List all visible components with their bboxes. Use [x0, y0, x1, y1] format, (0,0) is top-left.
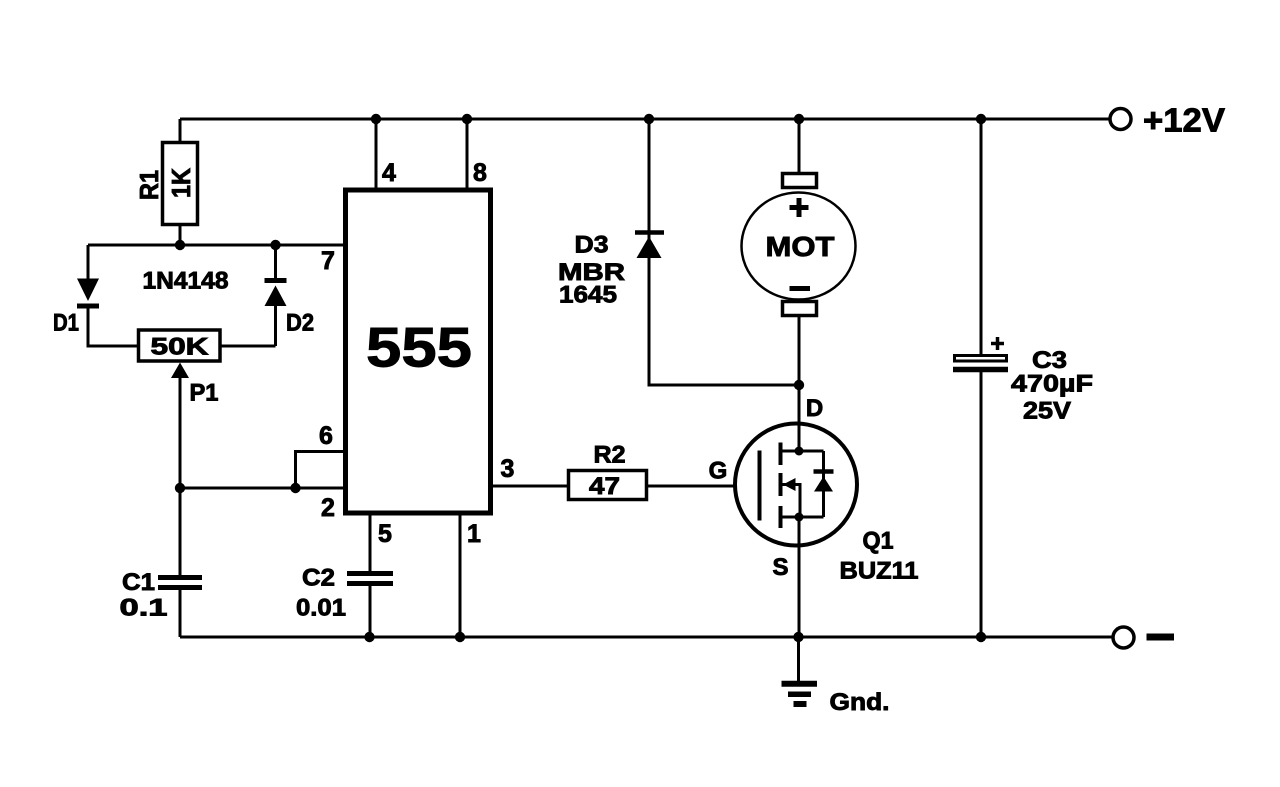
wire wiper to pin 2	[180, 487, 343, 490]
node junction C2/rail	[364, 632, 374, 642]
diode D1	[77, 279, 99, 302]
node junction drain	[794, 380, 804, 390]
svg-text:P1: P1	[190, 380, 219, 407]
svg-text:1: 1	[467, 520, 481, 548]
channel dashes	[779, 443, 783, 529]
svg-text:C2: C2	[302, 565, 335, 592]
svg-text:MOT: MOT	[766, 231, 835, 262]
drain stub	[781, 450, 824, 453]
svg-text:R2: R2	[594, 442, 626, 469]
svg-text:G: G	[709, 458, 728, 485]
svg-text:1645: 1645	[559, 282, 617, 309]
source stub	[781, 516, 824, 519]
svg-text:1N4148: 1N4148	[143, 268, 229, 295]
node junction pin1/rail	[455, 632, 465, 642]
svg-text:0.01: 0.01	[296, 595, 346, 622]
svg-text:Gnd.: Gnd.	[830, 689, 890, 716]
motor plus	[790, 198, 809, 217]
svg-text:S: S	[772, 554, 788, 581]
svg-text:+12V: +12V	[1143, 101, 1225, 138]
svg-text:BUZ11: BUZ11	[840, 558, 919, 585]
potentiometer P1 50K	[139, 330, 221, 361]
motor brush bottom	[783, 302, 817, 316]
node terminal +12V	[1110, 109, 1131, 130]
middle stub with arrow	[781, 485, 801, 518]
resistor R1	[163, 143, 198, 225]
node junction source/rail	[793, 632, 803, 642]
wire motor top	[798, 119, 801, 173]
svg-text:1K: 1K	[166, 168, 196, 198]
svg-text:3: 3	[501, 455, 515, 483]
wire pin 1	[459, 513, 462, 637]
svg-text:R1: R1	[134, 170, 164, 200]
wire mid rail to pin 7	[88, 244, 343, 247]
diode D3	[649, 119, 799, 385]
wire drain	[798, 385, 801, 451]
svg-text:8: 8	[473, 159, 487, 187]
wire pot to D2	[220, 345, 276, 348]
wire D1 top	[87, 245, 90, 279]
node junction pin6 stub	[290, 483, 300, 493]
wire top rail +12V	[180, 118, 1109, 121]
svg-text:47: 47	[589, 473, 620, 500]
wire R1 top riser	[179, 119, 182, 143]
C3 plus sign	[991, 337, 1004, 350]
wire R2 to gate	[648, 485, 760, 488]
node junction C3/rail	[976, 632, 986, 642]
capacitor C2	[347, 574, 393, 584]
motor MOT body	[742, 193, 856, 300]
wire pin 4	[375, 119, 378, 190]
wiper arrow P1	[171, 363, 189, 379]
node junction R1/mid	[175, 240, 185, 250]
wire R1 bottom	[179, 224, 182, 245]
svg-text:50K: 50K	[151, 334, 210, 361]
wire pin 3 to R2	[491, 485, 567, 488]
node junction wiper/C1	[175, 483, 185, 493]
node junction D3 top	[644, 114, 654, 124]
svg-text:0.1: 0.1	[120, 595, 168, 622]
svg-text:D1: D1	[53, 310, 79, 337]
svg-text:D2: D2	[286, 310, 314, 337]
node junction pin4	[371, 114, 381, 124]
svg-text:D: D	[806, 395, 823, 422]
ground	[797, 637, 800, 681]
wire bottom rail	[180, 636, 1112, 639]
motor minus	[790, 286, 811, 291]
transistor Q1 MOSFET circle	[735, 424, 857, 546]
resistor R2	[569, 471, 647, 500]
capacitor C3	[980, 119, 983, 354]
node junction C3 top	[976, 114, 986, 124]
svg-text:470µF: 470µF	[1011, 371, 1093, 398]
wire pin 5 / C2	[369, 513, 372, 571]
wire source down to rail	[798, 517, 801, 637]
svg-text:D3: D3	[575, 232, 609, 259]
op-amp U1 555 timer box	[346, 190, 491, 513]
diode D2	[274, 306, 277, 346]
svg-text:6: 6	[319, 422, 333, 450]
svg-text:5: 5	[378, 520, 392, 548]
svg-text:2: 2	[321, 494, 335, 522]
gate bar	[758, 451, 762, 521]
svg-text:25V: 25V	[1023, 398, 1071, 425]
capacitor C1	[179, 488, 182, 575]
svg-text:C1: C1	[122, 569, 155, 596]
node junction pin8	[462, 114, 472, 124]
wire D1 bottom to pot	[88, 304, 139, 346]
wire motor bottom	[798, 317, 801, 385]
svg-text:7: 7	[321, 247, 335, 275]
wire pin 8	[466, 119, 469, 190]
body diode of Q1	[822, 451, 825, 517]
motor brush top	[783, 174, 817, 188]
node junction motor top	[794, 114, 804, 124]
node terminal minus	[1113, 627, 1134, 648]
node junction D2/mid	[270, 240, 280, 250]
label minus	[1147, 634, 1175, 641]
svg-text:4: 4	[382, 159, 396, 187]
wire pin 6 stub	[296, 452, 344, 489]
svg-text:Q1: Q1	[863, 528, 894, 555]
svg-text:555: 555	[366, 316, 472, 379]
